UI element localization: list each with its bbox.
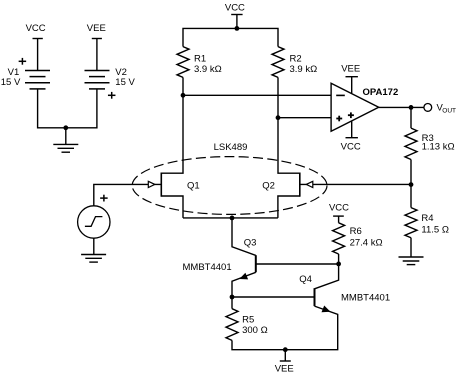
svg-text:R1: R1	[194, 53, 206, 64]
svg-text:27.4 kΩ: 27.4 kΩ	[350, 237, 383, 248]
svg-text:VEE: VEE	[341, 64, 360, 75]
svg-text:LSK489: LSK489	[214, 142, 248, 153]
svg-text:15 V: 15 V	[115, 77, 135, 88]
svg-text:MMBT4401: MMBT4401	[183, 262, 232, 273]
svg-text:15 V: 15 V	[1, 77, 21, 88]
svg-text:3.9 kΩ: 3.9 kΩ	[194, 64, 222, 75]
svg-text:MMBT4401: MMBT4401	[341, 292, 390, 303]
svg-text:VEE: VEE	[87, 23, 106, 34]
svg-text:OPA172: OPA172	[363, 87, 399, 98]
svg-text:R5: R5	[242, 315, 254, 326]
svg-text:3.9 kΩ: 3.9 kΩ	[290, 64, 318, 75]
svg-text:Q3: Q3	[244, 237, 257, 248]
svg-text:VEE: VEE	[275, 363, 294, 374]
svg-text:Q4: Q4	[299, 274, 312, 285]
svg-text:Q1: Q1	[187, 180, 200, 191]
svg-text:11.5 Ω: 11.5 Ω	[421, 224, 449, 235]
svg-text:R6: R6	[350, 226, 362, 237]
svg-text:VCC: VCC	[225, 2, 245, 13]
svg-text:Q2: Q2	[262, 180, 275, 191]
svg-text:VCC: VCC	[26, 23, 46, 34]
svg-text:1.13 kΩ: 1.13 kΩ	[422, 142, 455, 153]
svg-text:300 Ω: 300 Ω	[242, 325, 268, 336]
svg-text:VCC: VCC	[329, 202, 349, 213]
svg-text:R4: R4	[421, 213, 433, 224]
svg-text:VCC: VCC	[341, 142, 361, 153]
svg-text:OUT: OUT	[442, 107, 456, 114]
svg-text:R2: R2	[290, 53, 302, 64]
